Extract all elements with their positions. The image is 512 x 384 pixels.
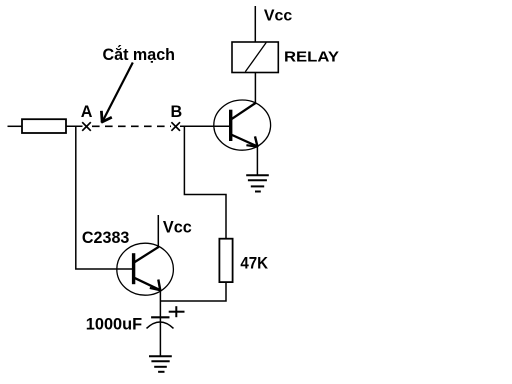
wire 47K bottom to emitter node [160,282,226,301]
transistor Q2 [117,243,174,295]
wire Q2 emitter down through capacitor to ground [159,290,161,357]
wire Vcc top [254,6,256,42]
resistor 47K [219,239,232,282]
transistor Q1 [214,100,271,150]
wire dashed cut segment A-B [92,125,171,127]
node B cut mark [171,122,180,131]
relay coil K1 [232,42,278,73]
capacitor C1 1000uF [147,317,174,328]
polarity plus sign [169,306,185,317]
node A cut mark [82,122,91,131]
wire input left [8,125,23,127]
svg-text:A: A [81,103,93,121]
svg-text:47K: 47K [240,253,268,272]
svg-text:Vcc: Vcc [264,8,293,25]
ground (Q1 emitter) [246,175,269,191]
svg-text:1000uF: 1000uF [86,314,142,333]
svg-text:B: B [171,103,183,121]
svg-text:Vcc: Vcc [163,218,192,236]
svg-text:RELAY: RELAY [284,48,339,65]
resistor R1 (left input) [22,119,66,133]
wire R1 to node A [66,125,83,127]
wire Q1 emitter to ground [256,147,258,176]
svg-text:C2383: C2383 [82,228,129,247]
wire node A down to Q2 base [76,126,133,269]
annotation arrow to cut point [101,63,133,123]
svg-text:Cắt mạch: Cắt mạch [103,45,176,64]
wire node B down to resistor 47K [184,126,226,239]
wire node B to Q1 base [180,125,230,127]
ground (capacitor) [149,356,172,372]
wire Q2 collector to Vcc [157,215,159,248]
wire relay to Q1 collector [254,73,256,104]
